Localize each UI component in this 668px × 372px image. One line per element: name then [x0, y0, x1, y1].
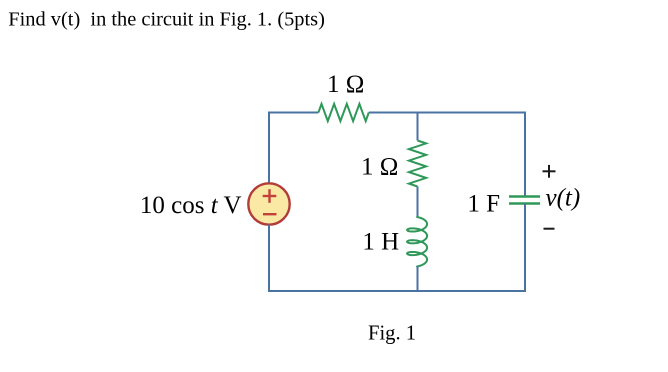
wire left upper segment: [268, 112, 270, 184]
voltage source plus sign: [263, 189, 277, 203]
svg-text:Find v(t) in the circuit in F: Find v(t) in the circuit in Fig. 1. (5pt…: [8, 8, 325, 30]
wire top-left segment: [269, 112, 318, 114]
wire bottom segment: [268, 290, 526, 292]
wire left lower segment: [268, 225, 270, 292]
wire middle lower segment: [417, 267, 419, 292]
svg-text:1 F: 1 F: [467, 191, 500, 218]
resistor R1 1 ohm (top): [318, 104, 368, 121]
svg-text:Fig. 1: Fig. 1: [368, 323, 416, 345]
svg-text:1 Ω: 1 Ω: [327, 71, 364, 98]
polarity minus sign for v(t): [544, 228, 555, 230]
wire middle between R2 and L1: [417, 187, 419, 218]
capacitor C1 1 F plates: [509, 197, 540, 204]
inductor L1 1 H coil: [407, 217, 427, 267]
wire right upper segment: [524, 112, 526, 197]
polarity plus sign for v(t): [543, 165, 556, 178]
svg-text:1 H: 1 H: [362, 229, 399, 256]
wire middle upper segment: [417, 113, 419, 141]
voltage source minus sign: [263, 213, 277, 215]
wire top-right segment: [369, 112, 525, 114]
voltage source VS1 circle: [248, 183, 289, 224]
wire right lower segment: [524, 204, 526, 293]
svg-text:1 Ω: 1 Ω: [361, 154, 398, 181]
svg-text:v(t): v(t): [546, 184, 581, 211]
resistor R2 1 ohm (middle branch): [409, 141, 426, 187]
svg-text:10 cos t V: 10 cos t V: [140, 192, 242, 219]
